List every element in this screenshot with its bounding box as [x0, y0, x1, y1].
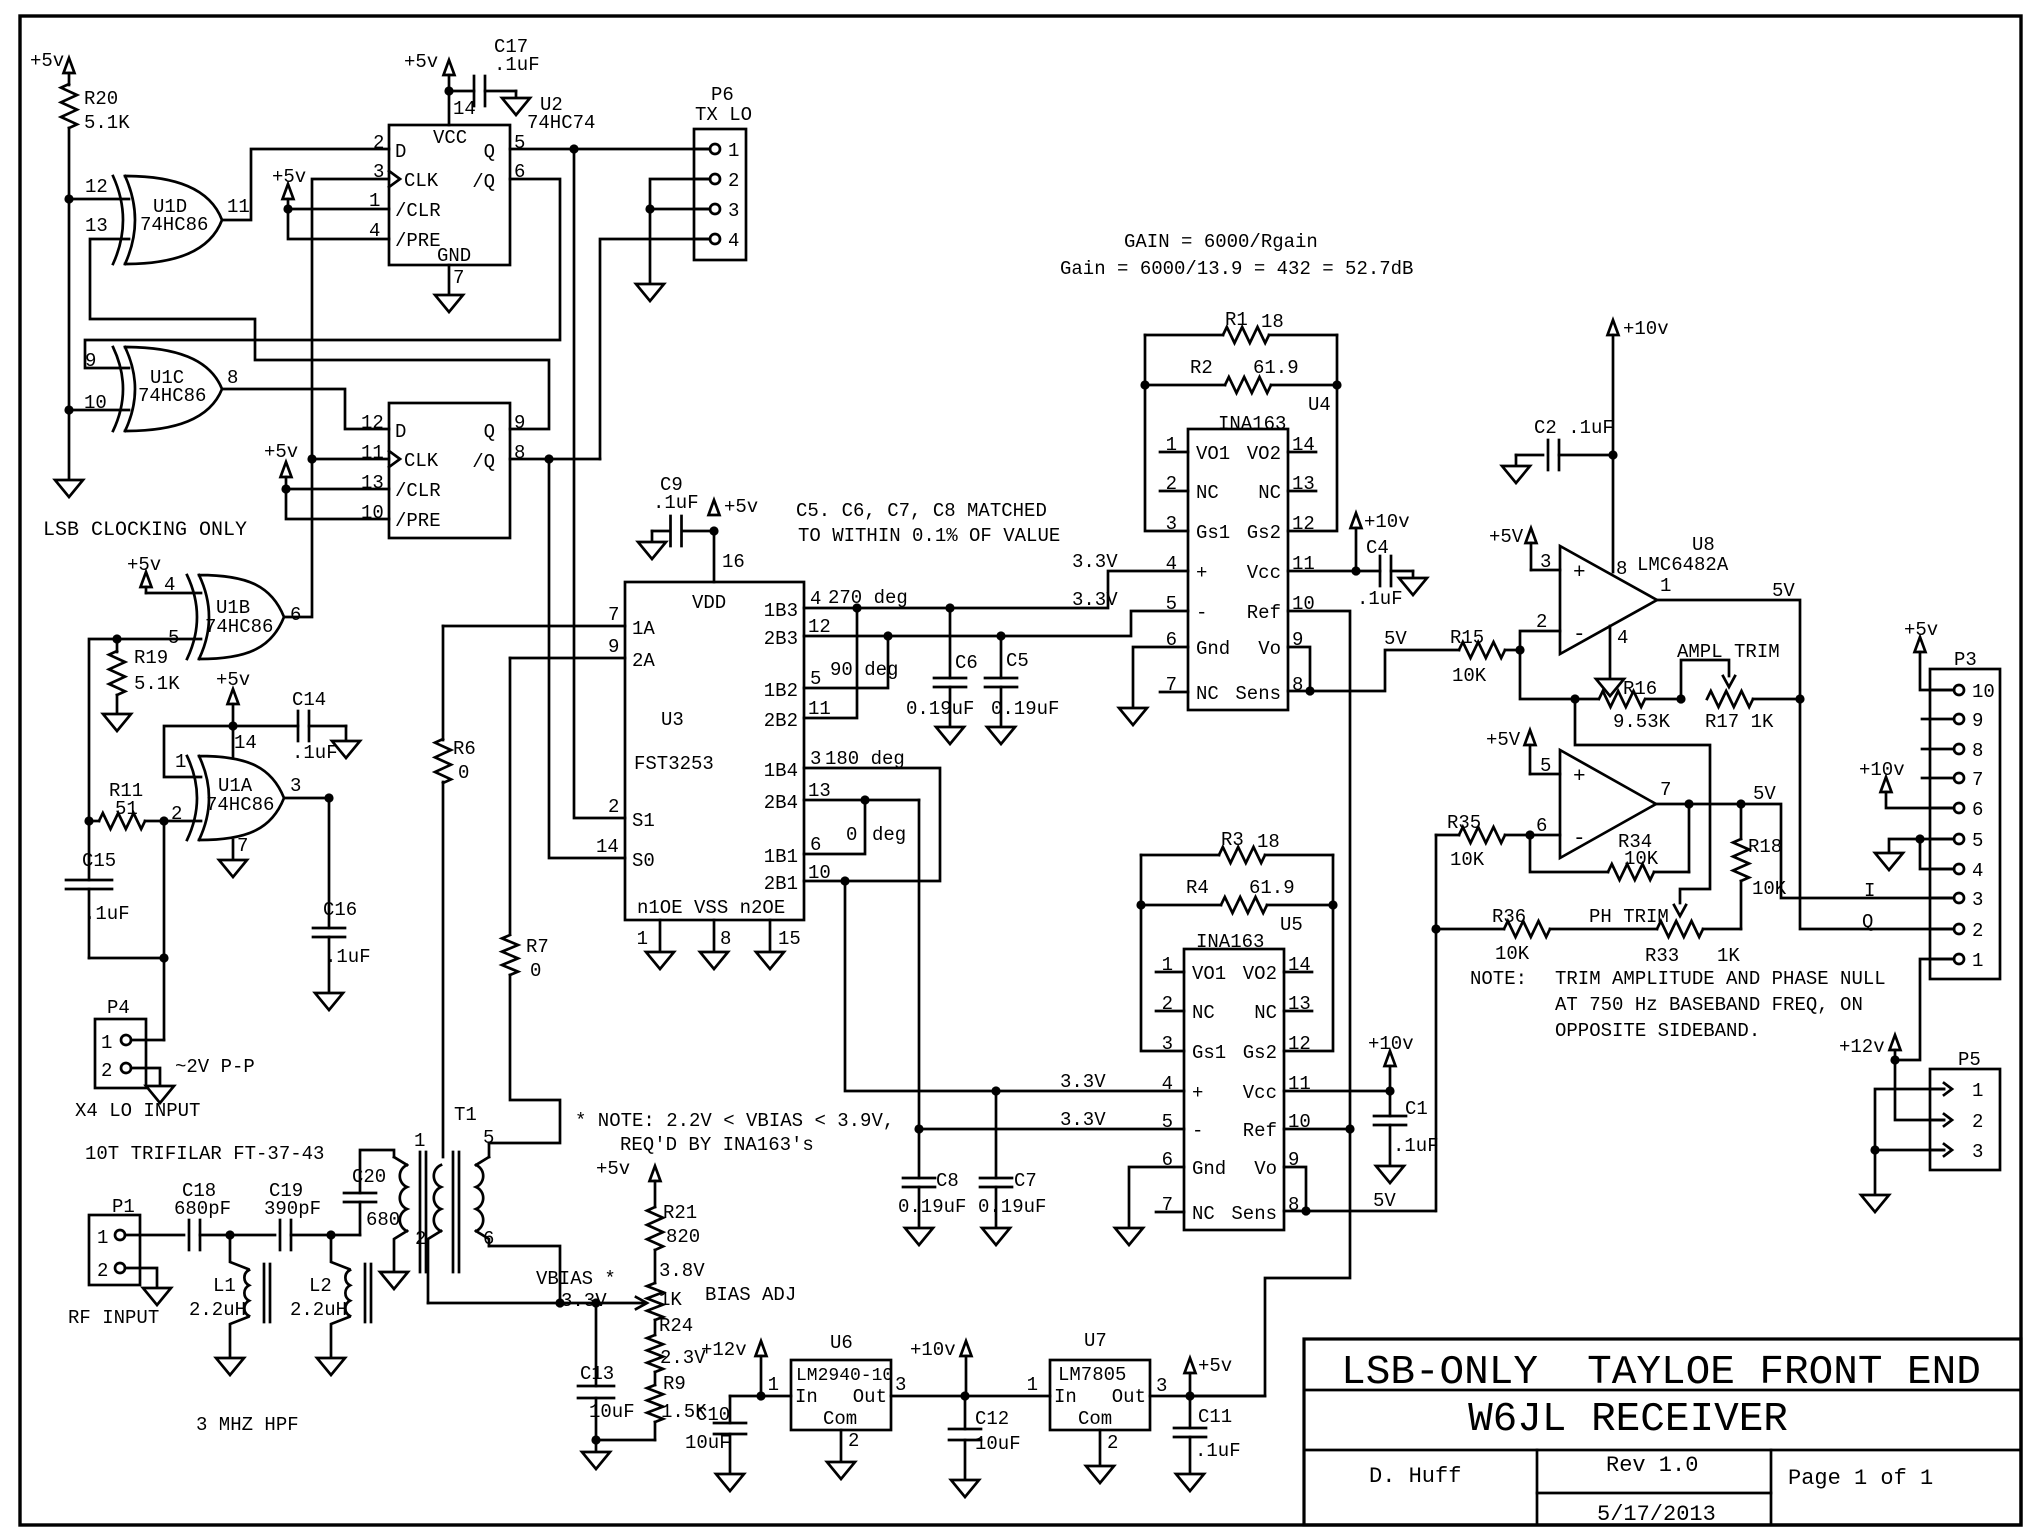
- power +5v (U2b CLR/PRE): [264, 441, 298, 489]
- wire U1D out 11 to U2 D: [222, 149, 389, 220]
- power +5v (C11): [1185, 1355, 1233, 1396]
- svg-text:/CLR: /CLR: [395, 200, 441, 222]
- wire R24-R9: [654, 1372, 657, 1385]
- svg-text:BIAS ADJ: BIAS ADJ: [705, 1284, 796, 1306]
- svg-text:Q: Q: [1862, 911, 1873, 933]
- svg-text:+: +: [1196, 562, 1207, 584]
- node C14/+5v: [228, 721, 237, 730]
- node R36 left: [1431, 924, 1440, 933]
- node T1 pin6/VBIAS: [555, 1298, 564, 1307]
- ic U5 INA163: [1156, 914, 1312, 1230]
- wire R35/R36 left: [1435, 835, 1438, 1211]
- svg-text:18: 18: [1261, 311, 1284, 333]
- svg-text:INA163: INA163: [1218, 413, 1286, 435]
- wire U1B pin4: [146, 592, 201, 595]
- wire 1B3 to 2B2: [804, 608, 857, 718]
- svg-text:1: 1: [1972, 950, 1983, 972]
- ground (T1 winding A): [380, 1272, 408, 1289]
- svg-text:.1uF: .1uF: [325, 946, 371, 968]
- wire T1 pin6 to VBIAS: [489, 1246, 560, 1303]
- wire U5 Sens 5V: [1284, 1210, 1435, 1213]
- resistor R20: [61, 73, 130, 134]
- wire P3 pin4: [1920, 839, 1954, 869]
- svg-text:5/17/2013: 5/17/2013: [1597, 1502, 1716, 1527]
- ground (C14): [332, 741, 360, 758]
- svg-text:-: -: [1196, 602, 1207, 624]
- wire R11 to U1A pin2: [164, 820, 201, 823]
- node C9/+5v: [709, 526, 718, 535]
- wire P4 pin2 gnd: [131, 1068, 160, 1086]
- svg-text:Vcc: Vcc: [1243, 1082, 1277, 1104]
- svg-text:14: 14: [453, 98, 476, 120]
- svg-text:4: 4: [1617, 627, 1628, 649]
- svg-text:1: 1: [101, 1032, 112, 1054]
- svg-text:U7: U7: [1084, 1330, 1107, 1352]
- svg-text:5: 5: [514, 132, 525, 154]
- svg-text:2: 2: [373, 132, 384, 154]
- svg-text:.1uF: .1uF: [1357, 588, 1403, 610]
- capacitor C20 680: [344, 1150, 400, 1235]
- svg-text:+: +: [1573, 562, 1586, 585]
- node R35/pin6: [1525, 830, 1534, 839]
- node P5 gnd: [1870, 1145, 1879, 1154]
- svg-text:RF INPUT: RF INPUT: [68, 1307, 159, 1329]
- wire U3 1A from R6: [443, 625, 625, 628]
- svg-text:10K: 10K: [1450, 849, 1485, 871]
- ground (C17): [502, 98, 530, 115]
- node pin12 junction: [64, 194, 73, 203]
- svg-text:+12v: +12v: [1839, 1036, 1885, 1058]
- svg-text:74HC86: 74HC86: [205, 616, 273, 638]
- svg-text:3 MHZ HPF: 3 MHZ HPF: [196, 1414, 299, 1436]
- svg-text:-: -: [1573, 828, 1586, 851]
- svg-text:15: 15: [778, 928, 801, 950]
- svg-text:3: 3: [290, 775, 301, 797]
- svg-text:+5v: +5v: [596, 1158, 630, 1180]
- node C4 tap: [1351, 566, 1360, 575]
- node R1/R2 right: [1332, 380, 1341, 389]
- svg-text:7: 7: [237, 835, 248, 857]
- op-amp U8b LMC6482A: [1536, 750, 1671, 858]
- wire U6 Com pin2: [840, 1430, 843, 1462]
- wire R9 bottom stub: [654, 1422, 657, 1440]
- svg-text:820: 820: [666, 1226, 700, 1248]
- svg-text:Vo: Vo: [1254, 1158, 1277, 1180]
- node +12v: [1890, 1055, 1899, 1064]
- svg-text:TO WITHIN 0.1% OF VALUE: TO WITHIN 0.1% OF VALUE: [798, 525, 1060, 547]
- ground (P1): [143, 1288, 171, 1305]
- wire 2B3 to 1B2: [804, 636, 888, 688]
- node 2B4/1B1: [860, 795, 869, 804]
- wire U1A GND pin7: [232, 840, 235, 860]
- wire Q net to U3 S1: [574, 149, 625, 818]
- capacitor C7 0.19uF: [978, 1091, 1046, 1228]
- capacitor C11 .1uF: [1174, 1396, 1241, 1474]
- wire clock net U1B.6 to CLK pins: [284, 179, 389, 617]
- wire Rgain left to Gs1: [1145, 335, 1188, 531]
- wire U8b pin6: [1530, 834, 1560, 837]
- svg-text:12: 12: [85, 176, 108, 198]
- resistor R36 10K: [1436, 906, 1657, 965]
- wire /PRE pin4: [288, 209, 389, 239]
- svg-text:C15: C15: [82, 850, 116, 872]
- svg-text:P6: P6: [711, 84, 734, 106]
- ic U2b 74HC74 (flip-flop B): [361, 403, 525, 538]
- resistor R15 10K: [1450, 627, 1520, 687]
- wire VDD pin16: [713, 531, 716, 582]
- svg-text:GND: GND: [437, 245, 471, 267]
- wire P6 pin2 ground net: [650, 179, 710, 284]
- svg-text:+5v: +5v: [30, 50, 64, 72]
- svg-text:+5V: +5V: [1486, 729, 1521, 751]
- svg-text:LSB CLOCKING ONLY: LSB CLOCKING ONLY: [43, 519, 247, 542]
- svg-text:74HC86: 74HC86: [140, 214, 208, 236]
- wire /CLR pin1: [288, 208, 389, 211]
- svg-text:2: 2: [848, 1430, 859, 1452]
- svg-text:2.2uH: 2.2uH: [290, 1299, 347, 1321]
- wire 0 net to U5 - and C8: [918, 800, 921, 1178]
- ic U2 74HC74 (flip-flop A): [369, 94, 595, 289]
- svg-text:1: 1: [1660, 575, 1671, 597]
- svg-text:0: 0: [458, 762, 469, 784]
- svg-text:1A: 1A: [632, 618, 655, 640]
- wire to C20: [331, 1234, 360, 1237]
- svg-text:680: 680: [366, 1209, 400, 1231]
- node C1 tap: [1385, 1086, 1394, 1095]
- svg-text:1: 1: [414, 1130, 425, 1152]
- wire U2b /CLR pin13: [286, 488, 389, 491]
- svg-text:10K: 10K: [1752, 878, 1787, 900]
- wire P3 pin5 gnd: [1889, 839, 1954, 853]
- ground (L2): [317, 1358, 345, 1375]
- svg-text:R24: R24: [659, 1315, 693, 1337]
- resistor R3 18: [1141, 829, 1333, 863]
- wire U3 2A from R7: [510, 657, 625, 660]
- svg-text:R18: R18: [1748, 836, 1782, 858]
- svg-text:R6: R6: [453, 738, 476, 760]
- wire P6 pin3: [650, 208, 710, 211]
- svg-text:8: 8: [514, 442, 525, 464]
- svg-text:74HC86: 74HC86: [138, 385, 206, 407]
- svg-text:P3: P3: [1954, 649, 1977, 671]
- svg-text:6: 6: [290, 604, 301, 626]
- svg-text:8: 8: [720, 928, 731, 950]
- svg-text:13: 13: [85, 215, 108, 237]
- node 2B3/1B2: [883, 631, 892, 640]
- svg-text:5V: 5V: [1384, 628, 1407, 650]
- wire +12v to P5 pin2: [1895, 1060, 1944, 1120]
- svg-text:.1uF: .1uF: [653, 492, 699, 514]
- node 1B3/2B2: [852, 603, 861, 612]
- ic U3 FST3253: [596, 582, 831, 920]
- wire U1C pin9 from U2 /Q: [85, 179, 560, 368]
- node R19/pin5: [112, 634, 121, 643]
- resistor R4 61.9: [1141, 877, 1333, 913]
- svg-text:Gnd: Gnd: [1196, 638, 1230, 660]
- ic U4 INA163: [1160, 394, 1331, 710]
- svg-text:R17 1K: R17 1K: [1705, 711, 1774, 733]
- capacitor C18 680pF: [174, 1180, 231, 1250]
- resistor R9 1.5K: [647, 1373, 707, 1423]
- svg-text:2A: 2A: [632, 650, 655, 672]
- svg-text:/PRE: /PRE: [395, 230, 441, 252]
- ground (U5): [1115, 1228, 1143, 1245]
- svg-text:P1: P1: [112, 1196, 135, 1218]
- svg-text:Gain = 6000/13.9 = 432 = 52.7d: Gain = 6000/13.9 = 432 = 52.7dB: [1060, 258, 1413, 280]
- svg-text:3: 3: [1156, 1375, 1167, 1397]
- svg-text:12: 12: [1288, 1033, 1311, 1055]
- svg-text:.1uF: .1uF: [494, 54, 540, 76]
- svg-text:Gs1: Gs1: [1192, 1042, 1226, 1064]
- svg-text:1.5K: 1.5K: [661, 1401, 707, 1423]
- svg-text:9.53K: 9.53K: [1613, 711, 1671, 733]
- wire P3 pin1 to +12v: [1895, 959, 1954, 1060]
- svg-text:C5: C5: [1006, 650, 1029, 672]
- power +10v (C12): [910, 1339, 972, 1396]
- svg-text:D. Huff: D. Huff: [1369, 1464, 1461, 1489]
- power +5v (U2a CLR/PRE): [272, 166, 306, 209]
- svg-text:* NOTE: 2.2V < VBIAS < 3.9V,: * NOTE: 2.2V < VBIAS < 3.9V,: [575, 1110, 894, 1132]
- power +5v (C17): [404, 51, 455, 91]
- node R3/R4 right: [1328, 900, 1337, 909]
- capacitor C15 .1uF: [66, 821, 164, 958]
- svg-text:3: 3: [895, 1374, 906, 1396]
- ground (U4): [1119, 708, 1147, 725]
- svg-text:1B2: 1B2: [764, 680, 798, 702]
- svg-text:NC: NC: [1192, 1203, 1215, 1225]
- wire U3 VSS pin8: [713, 920, 716, 952]
- svg-text:1K: 1K: [659, 1289, 682, 1311]
- ground (n2OE): [756, 952, 784, 969]
- svg-text:L2: L2: [309, 1275, 332, 1297]
- resistor R35 10K: [1436, 812, 1530, 871]
- node R17 right: [1795, 694, 1804, 703]
- svg-text:VDD: VDD: [692, 592, 726, 614]
- node U2b CLR junction: [281, 484, 290, 493]
- svg-text:C12: C12: [975, 1408, 1009, 1430]
- svg-text:R16: R16: [1623, 678, 1657, 700]
- wire U8a pin4 gnd: [1609, 626, 1612, 679]
- wire U5 Vcc pin11: [1284, 1090, 1390, 1093]
- ground (n1OE): [646, 952, 674, 969]
- svg-text:R1: R1: [1225, 309, 1248, 331]
- node R34/out: [1684, 799, 1693, 808]
- resistor R18 10K: [1733, 804, 1787, 929]
- svg-text:.1uF: .1uF: [1393, 1135, 1439, 1157]
- wire pin5 to R11 node: [89, 639, 117, 821]
- svg-text:NC: NC: [1196, 482, 1219, 504]
- wire U1C pin10: [69, 409, 129, 412]
- svg-text:4: 4: [1162, 1073, 1173, 1095]
- trimmer R17 1K: [1681, 660, 1800, 733]
- svg-text:3.3V: 3.3V: [1060, 1109, 1106, 1131]
- svg-text:W6JL RECEIVER: W6JL RECEIVER: [1468, 1397, 1788, 1443]
- svg-text:1B3: 1B3: [764, 600, 798, 622]
- svg-text:R21: R21: [663, 1202, 697, 1224]
- svg-text:T1: T1: [454, 1104, 477, 1126]
- svg-text:10uF: 10uF: [975, 1433, 1021, 1455]
- wire U5 Ref pin10: [1284, 1128, 1350, 1131]
- svg-text:9: 9: [514, 412, 525, 434]
- svg-text:R2: R2: [1190, 357, 1213, 379]
- svg-text:2.2uH: 2.2uH: [189, 1299, 246, 1321]
- svg-text:VO2: VO2: [1243, 963, 1277, 985]
- power +5v (U1B pin4): [127, 554, 161, 593]
- svg-text:680pF: 680pF: [174, 1198, 231, 1220]
- wire R7 to T1 pin5: [489, 975, 560, 1143]
- svg-text:U8: U8: [1692, 534, 1715, 556]
- svg-text:D: D: [395, 141, 406, 163]
- svg-text:C5. C6, C7, C8 MATCHED: C5. C6, C7, C8 MATCHED: [796, 500, 1047, 522]
- svg-text:8: 8: [1288, 1194, 1299, 1216]
- node C6 tap: [945, 603, 954, 612]
- svg-text:Ref: Ref: [1247, 602, 1281, 624]
- capacitor C5 0.19uF: [985, 636, 1059, 727]
- capacitor C16 .1uF: [313, 798, 371, 993]
- svg-text:+10v: +10v: [1364, 511, 1410, 533]
- wire U4 Vcc pin11: [1288, 570, 1356, 573]
- svg-text:Gs2: Gs2: [1247, 522, 1281, 544]
- svg-text:.1uF: .1uF: [84, 903, 130, 925]
- capacitor C12 10uF: [949, 1396, 1021, 1480]
- svg-text:2: 2: [608, 796, 619, 818]
- svg-text:2: 2: [1107, 1432, 1118, 1454]
- svg-text:12: 12: [1292, 513, 1315, 535]
- svg-text:INA163: INA163: [1196, 931, 1264, 953]
- svg-text:14: 14: [234, 732, 257, 754]
- svg-text:Com: Com: [1078, 1408, 1112, 1430]
- svg-text:VBIAS *: VBIAS *: [536, 1268, 616, 1290]
- ground (C7): [982, 1228, 1010, 1245]
- node /Q net: [544, 454, 553, 463]
- wire U5 Gnd pin6: [1129, 1167, 1184, 1228]
- svg-text:~2V P-P: ~2V P-P: [175, 1056, 255, 1078]
- trimmer R33 1K: [1645, 921, 1741, 967]
- svg-text:+10v: +10v: [1623, 318, 1669, 340]
- node C12 tap: [960, 1391, 969, 1400]
- svg-text:I: I: [1864, 880, 1875, 902]
- resistor R2 61.9: [1145, 357, 1337, 393]
- wire C18-C19: [230, 1234, 275, 1237]
- resistor R1 18: [1145, 309, 1337, 343]
- capacitor C14 .1uF: [233, 689, 346, 764]
- connector P6 TX LO: [694, 84, 752, 260]
- svg-text:+10v: +10v: [1368, 1033, 1414, 1055]
- svg-text:X4 LO INPUT: X4 LO INPUT: [75, 1100, 200, 1122]
- svg-text:1: 1: [97, 1227, 108, 1249]
- xor gate U1B 74HC86: [164, 574, 301, 659]
- capacitor C13 10uF: [578, 1303, 635, 1440]
- wire 2B4 to 1B1: [804, 800, 865, 854]
- wire U2b /PRE pin10: [286, 489, 389, 519]
- svg-text:0.19uF: 0.19uF: [898, 1196, 966, 1218]
- resistor R16 9.53K: [1599, 678, 1681, 733]
- wire 180 net to U5 +: [845, 881, 1184, 1091]
- svg-text:R3: R3: [1221, 829, 1244, 851]
- svg-text:Vcc: Vcc: [1247, 562, 1281, 584]
- svg-text:0: 0: [530, 960, 541, 982]
- resistor R21 820: [647, 1202, 700, 1250]
- power +10v (P3 pin6): [1859, 759, 1954, 808]
- svg-text:C4: C4: [1366, 537, 1389, 559]
- power +10v (C4): [1351, 511, 1410, 571]
- svg-text:+10v: +10v: [910, 1339, 956, 1361]
- svg-text:Gs2: Gs2: [1243, 1042, 1277, 1064]
- svg-text:+12v: +12v: [701, 1339, 747, 1361]
- svg-text:C2 .1uF: C2 .1uF: [1534, 417, 1614, 439]
- ground (L1): [216, 1358, 244, 1375]
- wire 90 deg net (2B3): [804, 611, 1188, 636]
- svg-text:2: 2: [1972, 920, 1983, 942]
- svg-text:8: 8: [227, 367, 238, 389]
- svg-text:VO2: VO2: [1247, 443, 1281, 465]
- node C7 tap: [991, 1086, 1000, 1095]
- wire Rgain2 right to Gs2: [1284, 855, 1333, 1051]
- capacitor C19 390pF: [264, 1180, 331, 1250]
- svg-text:R36: R36: [1492, 906, 1526, 928]
- node Ref net: [1345, 1124, 1354, 1133]
- power +5v (C14/U1A): [216, 669, 250, 726]
- wire C10 to U6 In: [730, 1395, 791, 1398]
- capacitor C8 0.19uF: [898, 1170, 966, 1228]
- svg-text:1: 1: [175, 751, 186, 773]
- power +12v (U6 In): [701, 1339, 767, 1396]
- svg-text:U3: U3: [661, 709, 684, 731]
- svg-text:74HC74: 74HC74: [527, 112, 595, 134]
- inductor L2 2.2uH: [290, 1235, 371, 1358]
- svg-text:U5: U5: [1280, 914, 1303, 936]
- svg-text:Gnd: Gnd: [1192, 1158, 1226, 1180]
- svg-text:C1: C1: [1405, 1098, 1428, 1120]
- resistor R6 0: [435, 626, 476, 1157]
- svg-text:Vo: Vo: [1258, 638, 1281, 660]
- svg-text:/PRE: /PRE: [395, 510, 441, 532]
- svg-text:3.8V: 3.8V: [659, 1260, 705, 1282]
- wire R20 to ground: [68, 128, 71, 480]
- svg-text:CLK: CLK: [404, 170, 439, 192]
- wire U1D pin12: [69, 198, 129, 201]
- svg-text:0: 0: [846, 824, 857, 846]
- wire 0 deg net (2B4): [804, 799, 919, 802]
- wire U6 Out to U7 In: [891, 1395, 1050, 1398]
- svg-text:.1uF: .1uF: [292, 742, 338, 764]
- svg-text:5V: 5V: [1373, 1190, 1396, 1212]
- svg-text:C20: C20: [352, 1166, 386, 1188]
- wire U8a pin2: [1520, 631, 1560, 650]
- svg-text:Rev 1.0: Rev 1.0: [1606, 1453, 1698, 1478]
- wire U8a out 5V: [1657, 600, 1954, 929]
- ground (VSS): [700, 952, 728, 969]
- ground (R19): [103, 714, 131, 731]
- connector P4 X4 LO INPUT: [95, 997, 146, 1088]
- svg-text:S0: S0: [632, 850, 655, 872]
- svg-text:10K: 10K: [1624, 848, 1659, 870]
- svg-text:2B3: 2B3: [764, 628, 798, 650]
- svg-text:In: In: [795, 1386, 818, 1408]
- svg-text:4: 4: [1166, 553, 1177, 575]
- svg-text:+: +: [1573, 766, 1586, 789]
- ground (C6): [936, 727, 964, 744]
- capacitor C2 .1uF: [1516, 417, 1614, 470]
- svg-text:VCC: VCC: [433, 127, 467, 149]
- xor gate U1C 74HC86: [84, 347, 238, 431]
- node R11 left: [84, 816, 93, 825]
- ic U7 LM7805: [1027, 1330, 1168, 1430]
- svg-text:In: In: [1054, 1386, 1077, 1408]
- node U6 In: [756, 1391, 765, 1400]
- svg-text:3.3V: 3.3V: [1072, 551, 1118, 573]
- svg-text:3: 3: [1972, 1141, 1983, 1163]
